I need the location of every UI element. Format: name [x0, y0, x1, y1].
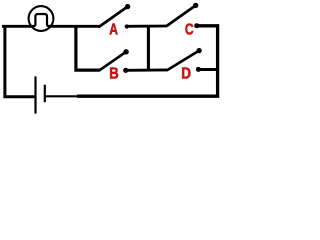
svg-text:B: B: [109, 65, 118, 82]
svg-text:A: A: [109, 20, 118, 38]
svg-text:D: D: [181, 66, 191, 83]
svg-text:C: C: [185, 21, 194, 39]
